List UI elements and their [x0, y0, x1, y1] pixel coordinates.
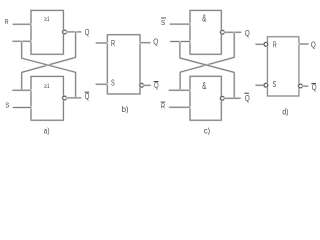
bubble R input of U6 — [264, 43, 268, 47]
wire Qbar output of U2 — [66, 97, 81, 99]
svg-text:S: S — [5, 100, 9, 109]
svg-text:Q: Q — [312, 83, 317, 92]
svg-text:R: R — [5, 17, 9, 26]
wire U1 lower input — [13, 40, 31, 42]
NOR gate U2 — [31, 76, 63, 120]
svg-text:S: S — [161, 18, 165, 27]
svg-text:≥1: ≥1 — [44, 16, 50, 23]
wire Q output of U1 — [66, 31, 81, 33]
wire Qbar output of U5 — [224, 97, 240, 99]
svg-text:&: & — [202, 14, 206, 25]
svg-text:Q: Q — [245, 94, 250, 103]
node Qbar label of U3 — [154, 81, 159, 90]
wire R input of U3 — [96, 42, 107, 44]
NAND gate U4 — [190, 10, 221, 54]
svg-text:R: R — [161, 101, 166, 110]
wire S input of U6 — [256, 84, 264, 86]
svg-text:Q: Q — [85, 28, 90, 37]
SR latch symbol U3 — [107, 35, 140, 94]
wire Q output of U3 — [140, 42, 150, 44]
svg-text:R: R — [273, 40, 277, 49]
svg-text:d): d) — [282, 107, 289, 116]
node Qbar label of U6 — [311, 83, 316, 92]
wire S input of U3 — [96, 83, 107, 85]
SR latch symbol U6 with inverting inputs — [267, 37, 299, 96]
svg-text:S: S — [273, 80, 277, 89]
bubble Qbar output of U3 — [140, 84, 144, 88]
input label Sbar — [161, 18, 166, 27]
wire Rbar input — [169, 106, 190, 108]
bubble U1 output — [63, 30, 67, 34]
svg-text:c): c) — [204, 126, 211, 135]
wire U5 upper input — [169, 89, 190, 91]
wire Qbar output of U3 — [143, 84, 150, 86]
wire R input — [13, 23, 31, 25]
wire feedback Q to U2 input — [22, 32, 76, 90]
bubble U4 output — [221, 30, 225, 34]
svg-text:a): a) — [44, 126, 50, 135]
node Qbar label — [85, 92, 90, 101]
input label Rbar — [161, 101, 166, 110]
bubble U5 output — [221, 97, 225, 101]
wire Q output of U4 — [224, 31, 241, 33]
bubble U2 output — [63, 96, 67, 100]
svg-text:Q: Q — [85, 92, 90, 101]
bubble S input of U6 — [264, 83, 268, 87]
wire U2 upper input — [13, 89, 31, 91]
wire feedback Q to U5 input — [180, 32, 234, 90]
svg-text:Q: Q — [154, 81, 159, 90]
svg-text:≥1: ≥1 — [44, 83, 50, 90]
svg-text:R: R — [111, 39, 115, 48]
svg-text:b): b) — [122, 104, 129, 114]
wire R input of U6 — [256, 43, 264, 45]
wire Qbar output of U6 — [302, 85, 308, 87]
NAND gate U5 — [190, 76, 221, 120]
wire feedback Qbar to U1 input — [22, 41, 76, 98]
wire Q output of U6 — [299, 43, 308, 45]
svg-text:Q: Q — [245, 29, 250, 38]
wire U4 lower input — [170, 41, 190, 43]
wire Sbar input — [170, 23, 190, 25]
wire S input — [13, 107, 31, 109]
node Qbar label of U5 — [244, 93, 249, 103]
svg-text:Q: Q — [153, 38, 158, 47]
wire feedback Qbar to U4 input — [180, 42, 234, 99]
svg-text:Q: Q — [311, 40, 316, 49]
svg-text:S: S — [111, 79, 115, 88]
svg-text:&: & — [202, 81, 206, 92]
NOR gate U1 — [31, 10, 63, 54]
bubble Qbar output of U6 — [299, 84, 303, 88]
